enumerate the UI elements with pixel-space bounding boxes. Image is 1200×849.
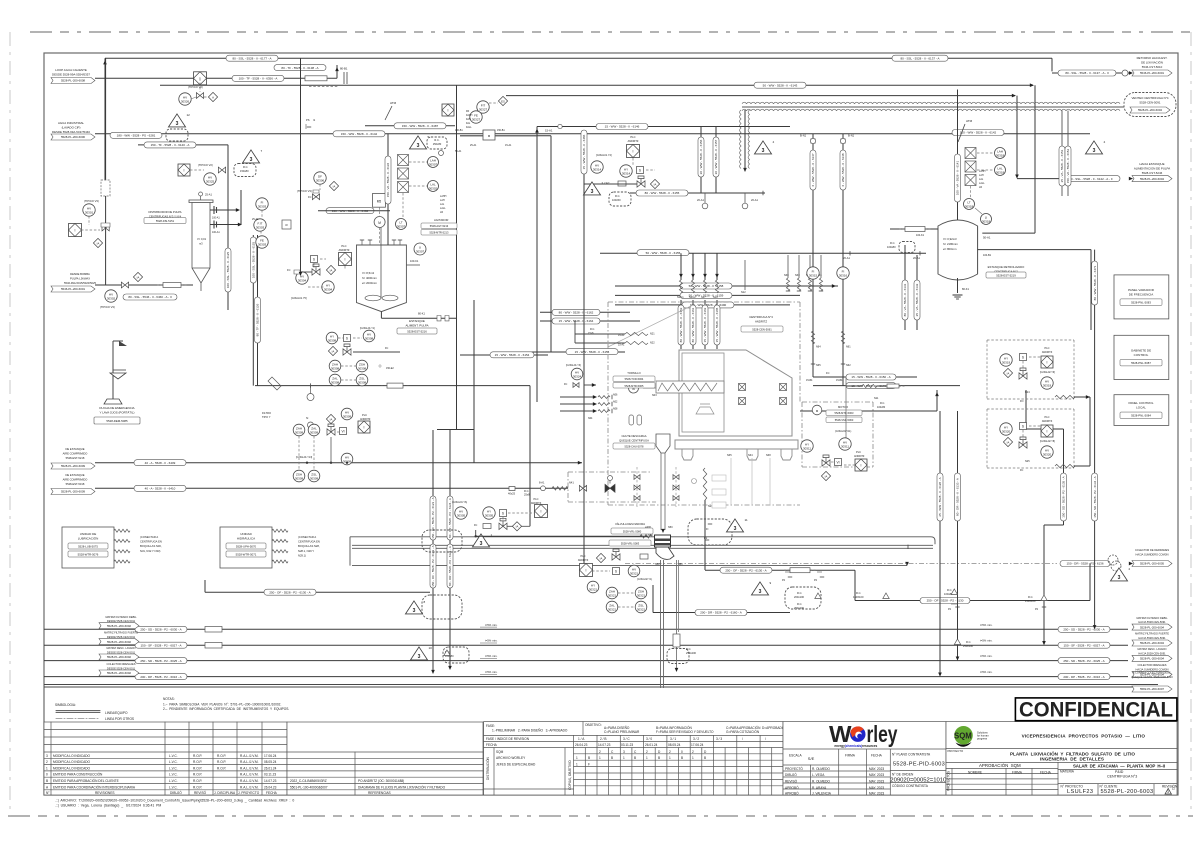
svg-text:30321: 30321 <box>589 587 598 591</box>
svg-text:HACIA 5528-CEN-5091: HACIA 5528-CEN-5091 <box>1138 636 1166 640</box>
svg-text:R.O.P.: R.O.P. <box>193 785 202 789</box>
svg-text:PROYECTO: PROYECTO <box>948 749 964 753</box>
svg-text:energy|chemicals|resources: energy|chemicals|resources <box>834 744 877 748</box>
svg-text:5528-EST-5219: 5528-EST-5219 <box>996 273 1016 277</box>
svg-text:DESDE BOMBA: DESDE BOMBA <box>70 272 90 276</box>
svg-text:GABINETE DE: GABINETE DE <box>1131 348 1151 352</box>
svg-text:250x200: 250x200 <box>794 606 805 610</box>
svg-text:ANDRITZ: ANDRITZ <box>360 418 371 421</box>
svg-text:30318: 30318 <box>996 170 1005 174</box>
svg-text:5528-PL-200-6004: 5528-PL-200-6004 <box>1140 657 1164 661</box>
svg-text:30306: 30306 <box>316 178 325 182</box>
svg-text:3: 3 <box>417 143 420 149</box>
svg-text:3: 3 <box>418 654 421 660</box>
svg-text:3: 3 <box>46 754 48 758</box>
svg-text:30303: 30303 <box>258 204 267 208</box>
svg-text:150 - OF - 5528 - P2 - 6123 -: 150 - OF - 5528 - P2 - 6123 - A <box>431 545 435 586</box>
svg-text:PROYECTÓ: PROYECTÓ <box>785 766 803 771</box>
svg-text:(TIPICO V3): (TIPICO V3) <box>100 305 115 309</box>
svg-text:150X100: 150X100 <box>853 595 864 599</box>
svg-text:R. ARAYA: R. ARAYA <box>812 786 827 790</box>
svg-text:TIPO Y: TIPO Y <box>262 415 271 419</box>
svg-text:150-E2: 150-E2 <box>386 367 394 370</box>
svg-text:N19.1: N19.1 <box>677 296 684 299</box>
svg-text:3: 3 <box>1118 575 1121 581</box>
svg-text:R.C.: R.C. <box>1028 595 1033 599</box>
svg-text:DESDE 5528-99A-5554/5357: DESDE 5528-99A-5554/5357 <box>52 72 90 76</box>
svg-text:ø= 800mm: ø= 800mm <box>943 247 957 251</box>
svg-text:J. PROYECTO: J. PROYECTO <box>238 791 260 795</box>
svg-text:N52: N52 <box>655 563 660 566</box>
svg-text:15 - WW - 5528 - II - 6154: 15 - WW - 5528 - II - 6154 <box>575 350 610 354</box>
svg-text:30327: 30327 <box>472 117 481 121</box>
svg-text:CENTRIFUGA N°3: CENTRIFUGA N°3 <box>1107 775 1137 779</box>
svg-text:5528-MTR-5063: 5528-MTR-5063 <box>835 411 854 415</box>
svg-text:3 / 2: 3 / 2 <box>693 737 699 741</box>
svg-text:5528-PL-200-6009: 5528-PL-200-6009 <box>61 464 85 468</box>
svg-text:80 - WW - 5528 - II - 6471: 80 - WW - 5528 - II - 6471 <box>1093 265 1097 300</box>
svg-text:N61: N61 <box>846 346 851 349</box>
svg-text:TORNILLO: TORNILLO <box>627 371 640 375</box>
svg-text:30304: 30304 <box>298 278 307 282</box>
svg-text:MATRIZ DESC. LAVADO: MATRIZ DESC. LAVADO <box>107 646 136 650</box>
svg-text:MATRIZ FILTRADO DEBIL: MATRIZ FILTRADO DEBIL <box>1136 616 1168 620</box>
svg-text:100-A1: 100-A1 <box>212 217 220 220</box>
svg-text:5528-CEN-5061: 5528-CEN-5061 <box>752 327 772 331</box>
svg-text:2: 2 <box>46 760 48 764</box>
svg-text:50 - WW - 5528 - II - 6155: 50 - WW - 5528 - II - 6155 <box>646 251 681 255</box>
svg-text:4: 4 <box>1104 140 1106 144</box>
svg-text:IA: IA <box>330 417 333 421</box>
svg-text:LALL: LALL <box>440 207 446 210</box>
svg-text:150-B1: 150-B1 <box>497 129 505 132</box>
svg-text:AIRE COMPRIMIDO: AIRE COMPRIMIDO <box>63 477 88 481</box>
svg-text:3: 3 <box>176 121 179 127</box>
svg-text:150 - OF - 5528 - P2 - 6123 -: 150 - OF - 5528 - P2 - 6123 - A <box>431 497 435 538</box>
svg-text:IA: IA <box>1007 440 1010 444</box>
svg-text:5528-PL-200-6002: 5528-PL-200-6002 <box>107 671 131 675</box>
svg-text:100 - SSL - 5528 - II - 6122 -: 100 - SSL - 5528 - II - 6122 - A - II <box>1068 177 1113 181</box>
svg-text:25 - WW - 5528 - II - 6128 - A: 25 - WW - 5528 - II - 6128 - A <box>938 477 942 516</box>
svg-text:ESTANQUE RETROLAVADO: ESTANQUE RETROLAVADO <box>988 265 1026 269</box>
svg-text:R.O.P.: R.O.P. <box>193 760 202 764</box>
svg-text:B: B <box>681 756 683 760</box>
svg-text:VI: VI <box>341 429 344 433</box>
svg-text:IA: IA <box>330 268 333 272</box>
svg-text:3: 3 <box>250 157 253 163</box>
svg-text:1: 1 <box>669 756 671 760</box>
svg-text:5528-PE-PID-6003: 5528-PE-PID-6003 <box>893 761 945 767</box>
svg-text:1 / A: 1 / A <box>578 737 585 741</box>
svg-text:L.V.C.: L.V.C. <box>169 754 178 758</box>
svg-text:12: 12 <box>187 113 191 117</box>
svg-text:200 - DR - 5528 - P2 - 6160 -: 200 - DR - 5528 - P2 - 6160 - A <box>700 611 742 615</box>
svg-text:DE FRECUENCIA: DE FRECUENCIA <box>1129 292 1154 296</box>
svg-text:5528-PNL-5087: 5528-PNL-5087 <box>1131 361 1151 365</box>
svg-text:L.V.C.: L.V.C. <box>169 760 178 764</box>
svg-text:50 - WW - 5528 - II - 6143: 50 - WW - 5528 - II - 6143 <box>763 83 798 87</box>
svg-text:APROBÓ: APROBÓ <box>785 791 799 796</box>
svg-text:LR: LR <box>979 186 982 189</box>
svg-text:BOQUILLAS N30,: BOQUILLAS N30, <box>140 544 162 548</box>
svg-text:B: B <box>588 756 590 760</box>
svg-text:N19.2: N19.2 <box>689 296 696 299</box>
svg-text:25-A1: 25-A1 <box>205 193 212 197</box>
svg-text:CENTRIFUGA N°3: CENTRIFUGA N°3 <box>749 315 773 319</box>
svg-text:5528-WTR-5076: 5528-WTR-5076 <box>78 552 99 556</box>
svg-text:(C23AL01.Y11): (C23AL01.Y11) <box>835 430 852 433</box>
svg-text:DIBUJÓ: DIBUJÓ <box>170 790 182 795</box>
svg-text:250x200: 250x200 <box>686 651 697 655</box>
svg-text:COLECTOR DRENAJES: COLECTOR DRENAJES <box>1138 663 1167 667</box>
svg-text:30308: 30308 <box>328 338 337 342</box>
svg-text:25-A1: 25-A1 <box>252 218 259 221</box>
svg-text:i=5% min.: i=5% min. <box>980 639 993 643</box>
svg-text:AGUA INDUSTRIAL: AGUA INDUSTRIAL <box>58 121 84 125</box>
svg-text:PO ANDRITZ (OC: 3000011488): PO ANDRITZ (OC: 3000011488) <box>358 779 404 783</box>
svg-text:30302: 30302 <box>107 296 116 300</box>
svg-text:N21: N21 <box>650 333 655 336</box>
svg-text:FC: FC <box>287 268 291 272</box>
svg-text:30320: 30320 <box>1002 429 1011 433</box>
svg-text:N18: N18 <box>713 296 718 299</box>
svg-text:3 / C: 3 / C <box>623 737 630 741</box>
svg-text:i=5% min.: i=5% min. <box>485 654 498 658</box>
svg-text:2: 2 <box>1129 567 1131 571</box>
svg-text:R. OLMEDO: R. OLMEDO <box>812 767 830 771</box>
svg-text:h= 2180mm: h= 2180mm <box>943 242 959 246</box>
svg-text:15 - WW - 5528 - II - 6486: 15 - WW - 5528 - II - 6486 <box>582 134 586 169</box>
svg-text:[C23AL01.Y4]: [C23AL01.Y4] <box>596 154 612 157</box>
svg-text:ATM: ATM <box>966 119 973 123</box>
svg-text:5528-DIS-5151: 5528-DIS-5151 <box>156 219 175 223</box>
svg-text:IA: IA <box>825 474 828 478</box>
svg-text:R.C.: R.C. <box>590 328 595 331</box>
svg-text:30318: 30318 <box>996 153 1005 157</box>
svg-text:5546-PL-200-6001: 5546-PL-200-6001 <box>1140 71 1164 75</box>
svg-text:CENTRIFUGA EN: CENTRIFUGA EN <box>140 540 162 544</box>
svg-text:5528-CST-5246: 5528-CST-5246 <box>1142 171 1163 175</box>
svg-text:HACIA 5528-CEN-5091: HACIA 5528-CEN-5091 <box>1138 652 1166 656</box>
svg-text:R.O.P.: R.O.P. <box>217 766 226 770</box>
svg-text:JEFES DE ESPECIALIDAD: JEFES DE ESPECIALIDAD <box>496 763 536 767</box>
svg-text:40x25: 40x25 <box>508 492 516 496</box>
svg-text:15 - WW - 5528 - II - 6146: 15 - WW - 5528 - II - 6146 <box>605 125 640 129</box>
svg-text:REVISIONES: REVISIONES <box>95 791 115 795</box>
svg-text:5528-EST-5216: 5528-EST-5216 <box>407 329 427 333</box>
svg-text:J. DISCIPLINA: J. DISCIPLINA <box>214 791 236 795</box>
svg-text:i=5% min.: i=5% min. <box>980 623 993 627</box>
svg-text:30309: 30309 <box>310 476 319 480</box>
svg-text:(LAVADO CIP): (LAVADO CIP) <box>62 125 81 129</box>
svg-text:SALAR DE ATACAMA — PLANTA: SALAR DE ATACAMA — PLANTA MOP H–II <box>1073 763 1165 768</box>
svg-text:FASE / INDICE DE REVISION: FASE / INDICE DE REVISION <box>486 737 530 741</box>
svg-text:PLC: PLC <box>341 244 346 248</box>
svg-text:R.A.L./J.V.M.: R.A.L./J.V.M. <box>240 779 259 783</box>
svg-text:5528-LUB-5075: 5528-LUB-5075 <box>78 544 98 548</box>
svg-text:EMITIDO PARA CONSTRUCCIÓN: EMITIDO PARA CONSTRUCCIÓN <box>53 772 103 777</box>
svg-text:i=5% min.: i=5% min. <box>485 639 498 643</box>
svg-text:80 - SSL - 5528 - II - 6137 -: 80 - SSL - 5528 - II - 6137 - A <box>900 56 939 60</box>
svg-text:N31, N32 Y N33): N31, N32 Y N33) <box>140 549 160 553</box>
svg-text:LAHH: LAHH <box>440 195 447 198</box>
svg-text:5528-PL-200-6004: 5528-PL-200-6004 <box>1140 177 1164 181</box>
svg-text:IA: IA <box>654 182 657 186</box>
svg-text:DE LIXIVIACIÓN: DE LIXIVIACIÓN <box>1141 59 1163 64</box>
svg-text:3: 3 <box>734 526 737 532</box>
svg-text:ESTANQUE: ESTANQUE <box>409 319 425 323</box>
svg-text:R.C.: R.C. <box>243 165 248 169</box>
svg-text:8: 8 <box>424 600 426 604</box>
svg-text:40 - A - 5528 - II - 6409: 40 - A - 5528 - II - 6409 <box>145 461 176 465</box>
svg-text:N° PROYECTO: N° PROYECTO <box>1061 784 1084 788</box>
svg-text:R.C.: R.C. <box>686 647 691 651</box>
svg-text:209020=00052=1010: 209020=00052=1010 <box>890 777 947 783</box>
svg-text:20 - WW - 5528 - II - 6157: 20 - WW - 5528 - II - 6157 <box>714 139 718 174</box>
svg-text:PLC: PLC <box>856 450 861 454</box>
svg-text:DISTRIBUIDOR DE PULPA: DISTRIBUIDOR DE PULPA <box>148 210 181 214</box>
svg-text:OBJETIVO:: OBJETIVO: <box>585 723 602 727</box>
svg-text:MODIFICA LO INDICADO: MODIFICA LO INDICADO <box>53 760 91 764</box>
svg-text:AGITADOR: AGITADOR <box>434 218 448 222</box>
svg-text:3: 3 <box>623 750 625 754</box>
svg-text:DIAGRAMA DE FLUJOS PLANTA LIXI: DIAGRAMA DE FLUJOS PLANTA LIXIVIACIÓN Y … <box>358 784 446 789</box>
svg-text:5528-PNL-5083: 5528-PNL-5083 <box>1131 301 1151 305</box>
svg-text:N08: N08 <box>613 408 618 411</box>
svg-text:[C23AL01.Y3]: [C23AL01.Y3] <box>566 364 581 367</box>
svg-text:S: S <box>313 257 315 261</box>
svg-text:REVISIÓN: REVISIÓN <box>1162 783 1178 788</box>
svg-text:R.A.L./J.V.M.: R.A.L./J.V.M. <box>240 766 259 770</box>
svg-text:ANDRITZ: ANDRITZ <box>854 455 865 458</box>
svg-text:2: 2 <box>646 750 648 754</box>
svg-text:1: 1 <box>623 756 625 760</box>
svg-text:ANDRITZ: ANDRITZ <box>628 140 639 143</box>
svg-text:LAHH: LAHH <box>979 170 986 173</box>
svg-text:30302: 30302 <box>429 186 438 190</box>
svg-text:20-A1: 20-A1 <box>843 256 850 260</box>
svg-text:R.C.: R.C. <box>797 602 802 606</box>
svg-text:B: B <box>611 756 613 760</box>
svg-text:/: / <box>765 737 766 741</box>
svg-text:MATERIA: MATERIA <box>1060 769 1075 773</box>
svg-text:25 - VA - 5528 - II - 6151: 25 - VA - 5528 - II - 6151 <box>1060 149 1064 182</box>
svg-text:S: S <box>615 569 617 573</box>
svg-text:20-A1: 20-A1 <box>697 198 704 202</box>
svg-text:5528-WTR-5071: 5528-WTR-5071 <box>236 552 257 556</box>
svg-text:I: I <box>184 168 185 172</box>
svg-text:150 - WW - 5528 - II - 6142: 150 - WW - 5528 - II - 6142 <box>341 132 378 136</box>
svg-text:R. OLMEDO: R. OLMEDO <box>812 780 830 784</box>
svg-text:N38: N38 <box>766 454 771 457</box>
svg-text:30318: 30318 <box>982 219 991 223</box>
svg-text:30325: 30325 <box>206 179 215 183</box>
svg-text:5546-PL-200-6001: 5546-PL-200-6001 <box>61 287 85 291</box>
svg-text:30327: 30327 <box>479 107 488 111</box>
svg-text:I: I <box>1047 429 1048 433</box>
svg-text:BOQUILLAS N28,: BOQUILLAS N28, <box>298 544 320 548</box>
svg-text:250 - OF - 5528 - P2 - 6130 -: 250 - OF - 5528 - P2 - 6130 - A <box>269 590 310 594</box>
svg-text:150 - SF - 5528 - P2 - 6027 -: 150 - SF - 5528 - P2 - 6027 - A <box>1063 643 1104 647</box>
svg-text:REFERENCIAS: REFERENCIAS <box>368 791 391 795</box>
svg-text:D=APROBADO: D=APROBADO <box>762 726 785 730</box>
svg-text:.::| ARCHIVO: T:\209020–0005: .::| ARCHIVO: T:\209020–00052\209020–000… <box>55 799 294 803</box>
svg-text:6 - WW - 5528 - II - 6147: 6 - WW - 5528 - II - 6147 <box>811 153 815 186</box>
svg-text:MATRIZ FILTRADO FUERTE: MATRIZ FILTRADO FUERTE <box>1135 632 1169 636</box>
svg-text:30320: 30320 <box>1043 452 1052 456</box>
svg-text:[C23AL02.Y8]: [C23AL02.Y8] <box>1040 440 1055 443</box>
svg-text:5528-PL-200-6004: 5528-PL-200-6004 <box>1140 625 1164 629</box>
svg-text:17.06.24: 17.06.24 <box>264 754 277 758</box>
svg-text:I: I <box>633 149 634 153</box>
svg-text:50-A1: 50-A1 <box>983 236 991 240</box>
svg-text:2: 2 <box>599 750 601 754</box>
svg-text:3 / 1: 3 / 1 <box>670 737 676 741</box>
svg-text:10: 10 <box>429 646 433 650</box>
svg-text:R.O.P.: R.O.P. <box>217 760 226 764</box>
svg-text:N41: N41 <box>569 481 574 485</box>
svg-text:250 - OF - 5528 - P2 - 6130: 250 - OF - 5528 - P2 - 6130 <box>927 599 964 603</box>
svg-text:30315: 30315 <box>809 273 818 277</box>
svg-text:N12: N12 <box>741 291 746 294</box>
svg-text:IA: IA <box>332 349 335 353</box>
svg-text:25x8: 25x8 <box>524 493 530 497</box>
svg-text:15-A1: 15-A1 <box>618 334 625 337</box>
svg-text:100 - TF - 5528 - II - 6356 -: 100 - TF - 5528 - II - 6356 - A <box>239 77 278 81</box>
svg-text:(TIPICO V2): (TIPICO V2) <box>198 163 213 167</box>
svg-text:INGENIERIA DE DETALLES: INGENIERIA DE DETALLES <box>1040 757 1104 762</box>
svg-text:PLC: PLC <box>580 554 585 558</box>
svg-text:VI: VI <box>836 460 839 464</box>
svg-text:VICEPRESIDENCIA PROYECTOS PO: VICEPRESIDENCIA PROYECTOS POTASIO — LITI… <box>1022 733 1146 738</box>
svg-text:N25: N25 <box>1025 460 1030 463</box>
svg-text:30308: 30308 <box>365 336 374 340</box>
svg-text:.::| USUARIO : Vega, Loren: .::| USUARIO : Vega, Lorena (Santiago) _… <box>55 804 161 808</box>
svg-text:L.V.C.: L.V.C. <box>169 773 178 777</box>
svg-text:S: S <box>639 168 641 172</box>
svg-text:250 - SD - 5528 - P2 - 6025 -: 250 - SD - 5528 - P2 - 6025 - A <box>140 659 181 663</box>
svg-text:30307: 30307 <box>416 249 425 253</box>
svg-text:i=5% min.: i=5% min. <box>980 670 993 674</box>
svg-text:N28.1, N29 Y: N28.1, N29 Y <box>298 549 314 553</box>
svg-text:150 - VA - 5528 - II - 6152: 150 - VA - 5528 - II - 6152 <box>1066 149 1070 184</box>
svg-text:IA: IA <box>516 525 519 529</box>
svg-text:REVISÓ: REVISÓ <box>785 779 798 784</box>
svg-text:30307: 30307 <box>397 224 406 228</box>
svg-text:P2: P2 <box>1035 608 1039 611</box>
svg-text:2: 2 <box>692 750 694 754</box>
svg-text:C=PLANO PRELIMINAR: C=PLANO PRELIMINAR <box>604 730 640 734</box>
svg-text:150 - VA - 5528 - II - 6136: 150 - VA - 5528 - II - 6136 <box>386 163 390 198</box>
svg-text:QUEQUE CENTR. 5528-COR-5120: QUEQUE CENTR. 5528-COR-5120 <box>1131 675 1173 679</box>
svg-text:3 / 3: 3 / 3 <box>716 737 722 741</box>
svg-text:(TIPICO V2): (TIPICO V2) <box>188 85 203 89</box>
svg-text:5528-AGT-5213: 5528-AGT-5213 <box>430 224 449 228</box>
svg-text:26.04.23: 26.04.23 <box>264 785 277 789</box>
svg-text:FECHA: FECHA <box>486 743 498 747</box>
svg-text:3: 3 <box>759 589 762 595</box>
svg-text:FILTRO: FILTRO <box>262 411 271 415</box>
svg-text:N29.1): N29.1) <box>298 553 306 557</box>
svg-text:APROBACIÓN SQM: APROBACIÓN SQM <box>979 763 1021 768</box>
svg-text:80 - DR - 5528 - P2 - 6124 - A: 80 - DR - 5528 - P2 - 6124 - A <box>448 498 452 538</box>
svg-text:30305: 30305 <box>457 513 466 517</box>
svg-text:N64: N64 <box>816 346 821 349</box>
svg-text:5528-DEM-5085: 5528-DEM-5085 <box>106 419 128 423</box>
svg-text:P2: P2 <box>814 579 818 582</box>
svg-text:14.07.23: 14.07.23 <box>598 743 611 747</box>
svg-text:20-A1: 20-A1 <box>751 198 758 202</box>
svg-text:30314: 30314 <box>622 171 631 175</box>
svg-text:15 - WW - 5528 - II - 6163: 15 - WW - 5528 - II - 6163 <box>703 307 707 342</box>
svg-text:B: B <box>658 756 660 760</box>
svg-text:30308: 30308 <box>358 366 367 370</box>
svg-text:V= 8,5m3: V= 8,5m3 <box>362 271 374 275</box>
svg-text:N06: N06 <box>613 394 618 397</box>
svg-text:FC: FC <box>564 383 568 386</box>
svg-text:ANDRITZ: ANDRITZ <box>755 319 767 323</box>
svg-text:30303: 30303 <box>258 242 267 246</box>
svg-text:30311: 30311 <box>841 444 849 448</box>
svg-text:FC: FC <box>385 347 389 350</box>
svg-text:i=5% min.: i=5% min. <box>485 670 498 674</box>
svg-text:03.11.23: 03.11.23 <box>264 773 276 777</box>
svg-text:I: I <box>448 108 449 112</box>
svg-text:B-N1: B-N1 <box>800 134 807 138</box>
svg-text:i=5% min.: i=5% min. <box>980 654 993 658</box>
svg-text:R.C.: R.C. <box>947 588 952 592</box>
svg-text:11: 11 <box>745 518 748 522</box>
svg-text:100x80: 100x80 <box>887 245 896 249</box>
svg-text:B-N1: B-N1 <box>848 134 855 138</box>
svg-text:15 - WW - 5528 - II - 6150 - A: 15 - WW - 5528 - II - 6150 - A <box>851 375 890 379</box>
svg-text:LUBRICACIÓN: LUBRICACIÓN <box>78 536 99 541</box>
svg-text:MATRIZ DESC. LAVADO: MATRIZ DESC. LAVADO <box>1138 647 1167 651</box>
svg-text:250 - SD - 5528 - P2 - 6030 -: 250 - SD - 5528 - P2 - 6030 - A <box>140 628 181 632</box>
svg-text:SI: SI <box>306 417 309 420</box>
svg-text:VENTEO CENTRIFUGA N°4: VENTEO CENTRIFUGA N°4 <box>1132 96 1169 100</box>
svg-text:(C23AL01.Y6): (C23AL01.Y6) <box>452 501 467 504</box>
svg-text:100-A1: 100-A1 <box>212 231 220 234</box>
svg-text:250 - OF - 5528 - P2 - 6130 -: 250 - OF - 5528 - P2 - 6130 - A <box>725 568 766 572</box>
svg-text:M: M <box>378 221 381 225</box>
svg-text:30308: 30308 <box>331 366 340 370</box>
svg-text:200x100: 200x100 <box>794 595 805 599</box>
svg-text:250x100: 250x100 <box>963 644 974 648</box>
svg-text:FALL: FALL <box>466 126 472 129</box>
svg-text:N° CLIENTE: N° CLIENTE <box>1100 784 1118 788</box>
svg-text:SQM: SQM <box>954 731 972 740</box>
svg-text:R.O.P.: R.O.P. <box>193 779 202 783</box>
svg-text:30311: 30311 <box>803 446 811 450</box>
svg-text:FASE:: FASE: <box>486 724 495 728</box>
svg-text:COPIAS, OBJETIVO: COPIAS, OBJETIVO <box>568 760 572 790</box>
svg-text:3: 3 <box>1167 790 1169 794</box>
svg-text:30301: 30301 <box>85 210 94 214</box>
svg-text:1: 1 <box>576 756 578 760</box>
svg-text:CÓDIGO CONTRATISTA: CÓDIGO CONTRATISTA <box>892 783 929 788</box>
svg-text:B: B <box>704 756 706 760</box>
svg-text:PROYECTOS: PROYECTOS <box>947 771 951 791</box>
svg-text:FIRMA: FIRMA <box>1012 770 1023 774</box>
svg-text:I1: I1 <box>313 118 316 122</box>
svg-text:S: S <box>502 511 504 515</box>
svg-text:h= 4000mm: h= 4000mm <box>362 276 378 280</box>
svg-text:1: 1 <box>576 763 578 767</box>
svg-text:NOMBRE: NOMBRE <box>968 770 982 774</box>
svg-text:SQM: SQM <box>496 750 504 754</box>
svg-text:1: 1 <box>599 756 601 760</box>
